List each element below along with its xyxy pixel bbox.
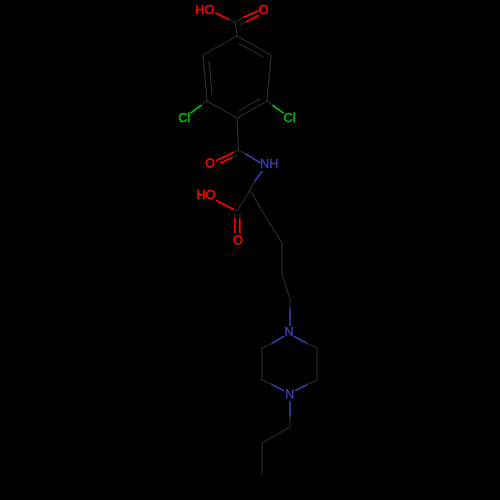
- wire C-OH bond oxygen half: [216, 13, 229, 19]
- wire aromatic inner line top-right: [239, 44, 263, 57]
- wire tail bond 3: [261, 443, 263, 475]
- wire right side C-C: [316, 348, 318, 380]
- wire N2-LR nitrogen half: [296, 385, 308, 391]
- svg-text:N: N: [285, 388, 294, 402]
- wire tail bond 2: [262, 427, 290, 443]
- wire N1-UR carbon half: [307, 344, 317, 349]
- wire C-Cl right carbon half: [267, 101, 273, 106]
- wire C1-COOH stem: [235, 23, 237, 37]
- svg-text:O: O: [259, 3, 269, 17]
- wire chain bond 2: [266, 218, 282, 244]
- wire acid C=O left line carbon half: [234, 214, 236, 219]
- wire acid C=O left line oxygen half: [234, 219, 236, 233]
- wire N1-UL carbon half: [262, 344, 272, 349]
- wire ring bond B-LR: [237, 101, 267, 118]
- wire alpha C to acid C: [237, 190, 250, 211]
- wire C=O second line oxygen half: [247, 16, 259, 22]
- wire chain bond 4: [282, 274, 290, 299]
- alkyl chain to piperazine: [250, 190, 290, 310]
- wire chain to N1 carbon half: [289, 299, 291, 310]
- wire ring bond UR-T: [237, 36, 271, 55]
- wire ring bond LR-UR: [267, 55, 271, 101]
- svg-text:N: N: [284, 325, 293, 339]
- wire amide C=O main carbon half: [233, 150, 239, 153]
- wire ring bond T-UL: [203, 36, 237, 55]
- chlorine Cl left: [191, 101, 207, 113]
- wire chain to N1 nitrogen half: [289, 310, 291, 326]
- wire acid C=O right line carbon half: [239, 214, 241, 219]
- wire N1-UL nitrogen half: [272, 337, 284, 344]
- wire amide C=O second carbon half: [231, 155, 236, 158]
- wire N2 down bond carbon half: [289, 417, 291, 427]
- wire C=O second line carbon half: [240, 22, 247, 25]
- amide C(=O)NH: [217, 118, 261, 163]
- wire amide C-N carbon half: [239, 150, 247, 154]
- wire amide C=O second oxygen half: [221, 158, 231, 163]
- svg-text:HO: HO: [197, 188, 216, 202]
- wire chain bond 3: [281, 243, 283, 274]
- wire ring bond LL-B: [207, 101, 237, 118]
- wire C-Cl left carbon half: [201, 101, 207, 106]
- wire left side C-C: [261, 348, 263, 380]
- wire N2-LL nitrogen half: [272, 385, 284, 391]
- wire acid C-OH oxygen half: [217, 201, 234, 210]
- wire amide C-N nitrogen half: [246, 154, 261, 163]
- wire aromatic inner line left: [209, 61, 212, 93]
- wire C-Cl left chlorine half: [191, 106, 201, 113]
- wire aromatic inner line bottom-right: [239, 99, 260, 111]
- carboxylic acid C(=O)OH top: [216, 11, 258, 36]
- wire N1-UR nitrogen half: [295, 337, 308, 344]
- svg-text:O: O: [233, 234, 243, 248]
- wire acid C=O right line oxygen half: [239, 219, 241, 233]
- wire amide C=O main oxygen half: [217, 153, 234, 161]
- wire N2 down bond nitrogen half: [289, 402, 291, 418]
- svg-text:O: O: [205, 157, 215, 171]
- wire ring bond UL-LL: [203, 55, 207, 101]
- wire N2-LL carbon half: [262, 380, 272, 385]
- piperazine ring: [262, 337, 317, 391]
- svg-text:Cl: Cl: [284, 111, 296, 125]
- N2 substituent tail: [262, 402, 290, 476]
- wire ring-B to amide C: [237, 118, 239, 150]
- svg-text:NH: NH: [260, 157, 278, 171]
- wire N2-LR carbon half: [307, 380, 317, 385]
- svg-text:Cl: Cl: [178, 111, 190, 125]
- alpha carbon and side acid: [217, 172, 263, 233]
- wire C=O main line oxygen half: [244, 11, 258, 17]
- benzene ring C1-C6: [203, 36, 271, 118]
- wire C-OH bond carbon half: [229, 19, 236, 22]
- wire acid C-OH carbon half: [234, 209, 238, 211]
- svg-text:HO: HO: [195, 3, 214, 17]
- wire NH to alpha C carbon half: [250, 182, 255, 191]
- wire C=O main line carbon half: [235, 17, 244, 22]
- wire chain bond 1: [250, 190, 266, 218]
- wire NH to alpha C nitrogen half: [255, 172, 263, 182]
- chlorine Cl right: [267, 101, 283, 113]
- wire C-Cl right chlorine half: [273, 106, 283, 113]
